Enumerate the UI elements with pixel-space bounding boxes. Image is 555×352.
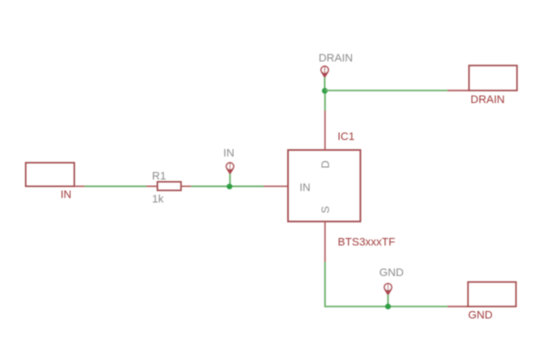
pin stub of port IN (74, 185, 85, 187)
port GND (468, 282, 516, 322)
svg-text:BTS3xxxTF: BTS3xxxTF (338, 236, 396, 248)
svg-text:D: D (320, 160, 332, 168)
svg-text:1k: 1k (152, 194, 164, 206)
net flag DRAIN (319, 52, 353, 90)
svg-text:GND: GND (468, 310, 493, 322)
svg-text:GND: GND (379, 267, 404, 279)
pin stub of port GND (448, 306, 468, 308)
svg-text:R1: R1 (152, 170, 166, 182)
wire (85, 185, 147, 187)
wire (325, 90, 448, 92)
wire (325, 262, 448, 307)
port IN (26, 163, 75, 202)
svg-text:DRAIN: DRAIN (319, 52, 353, 64)
junction (322, 88, 328, 94)
svg-text:IC1: IC1 (338, 131, 355, 143)
junction (227, 184, 233, 190)
IC IC1 BTS3xxxTF (288, 131, 396, 249)
svg-text:S: S (320, 206, 332, 213)
pin stub of port DRAIN (448, 90, 469, 92)
junction (385, 304, 391, 310)
wire (191, 185, 264, 187)
wire (324, 91, 326, 111)
pin stub S of IC1 (324, 222, 326, 263)
svg-text:IN: IN (300, 182, 311, 194)
resistor R1 (146, 170, 191, 205)
svg-text:DRAIN: DRAIN (471, 94, 505, 106)
net flag GND (379, 267, 404, 307)
net flag IN (223, 147, 234, 186)
svg-text:IN: IN (223, 147, 234, 159)
svg-text:IN: IN (61, 189, 72, 201)
pin stub IN of IC1 (264, 185, 288, 187)
port DRAIN (469, 66, 517, 106)
pin stub D of IC1 (324, 110, 326, 150)
